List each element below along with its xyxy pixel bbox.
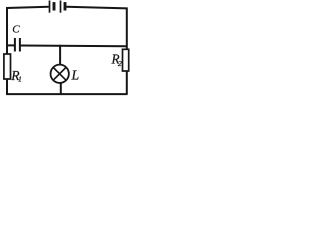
svg-text:L: L — [71, 68, 80, 83]
svg-text:2: 2 — [118, 59, 122, 68]
svg-text:C: C — [12, 24, 20, 36]
svg-text:1: 1 — [18, 75, 22, 84]
